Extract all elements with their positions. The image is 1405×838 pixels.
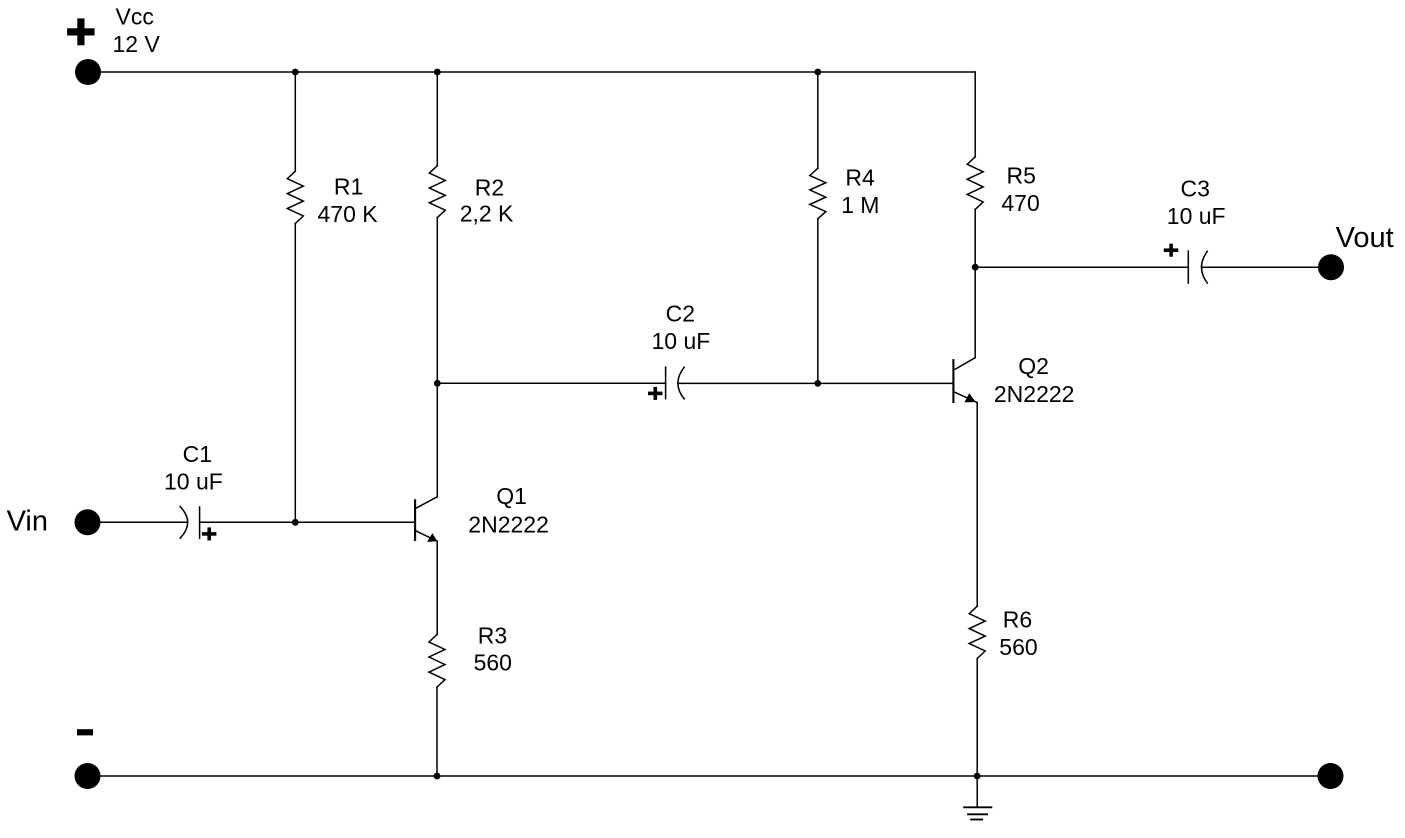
svg-text:12 V: 12 V: [113, 31, 161, 57]
terminal bottom-right: [1318, 763, 1344, 789]
svg-text:R2: R2: [475, 175, 504, 201]
capacitor C1 straight plate: [199, 507, 201, 538]
resistor R2: [429, 166, 445, 218]
wire C3 to Vout: [1202, 266, 1332, 268]
node R4 Q2 base: [814, 380, 821, 387]
ground: [963, 807, 992, 819]
wire R1 top stub: [294, 72, 296, 171]
resistor R5: [967, 157, 983, 210]
plus C2: [648, 387, 663, 400]
plus C3: [1164, 244, 1179, 257]
node top rail R4: [814, 69, 821, 76]
svg-text:10 uF: 10 uF: [1167, 203, 1226, 229]
svg-text:2N2222: 2N2222: [994, 381, 1075, 407]
svg-text:R1: R1: [334, 173, 363, 199]
node Q1 collector: [434, 380, 441, 387]
svg-text:560: 560: [999, 634, 1037, 660]
terminal Vin: [75, 509, 101, 535]
node R6 ground rail: [974, 773, 981, 780]
wire Q1 collector node to C2: [437, 382, 665, 384]
wire Q2 emitter down to R6: [976, 403, 978, 607]
resistor R3: [429, 635, 445, 688]
plus C1: [202, 527, 217, 540]
svg-text:C1: C1: [183, 441, 212, 467]
wire R3 bottom to ground rail: [436, 687, 438, 776]
wire R1 bottom to base node: [294, 224, 296, 523]
ground stub: [976, 776, 978, 807]
svg-text:C3: C3: [1181, 176, 1210, 202]
terminal bottom-left: [75, 763, 101, 789]
capacitor C2 straight plate: [665, 367, 667, 399]
wire Q1 emitter down to R3: [436, 541, 438, 634]
svg-text:10 uF: 10 uF: [164, 468, 223, 494]
svg-text:1 M: 1 M: [841, 192, 879, 218]
svg-text:R3: R3: [478, 623, 507, 649]
svg-text:Q1: Q1: [496, 483, 527, 509]
node R1 base: [292, 519, 299, 526]
wire C1 to Q1 base: [200, 521, 416, 523]
svg-text:C2: C2: [666, 301, 695, 327]
node top rail R1: [292, 69, 299, 76]
node R3 ground rail: [434, 773, 441, 780]
capacitor C3 curved plate: [1202, 251, 1208, 283]
wire R2 bottom to Q1 collector: [436, 218, 438, 497]
svg-text:Vout: Vout: [1336, 222, 1394, 254]
plus symbol Vcc: [67, 18, 95, 45]
wire R5 bottom to Q2 collector: [974, 209, 976, 357]
transistor Q2: [953, 358, 977, 403]
wire bottom rail: [88, 775, 1331, 777]
wire C2 to Q2 base: [678, 382, 954, 384]
node R5 C3: [972, 264, 979, 271]
svg-text:2N2222: 2N2222: [468, 511, 549, 537]
capacitor C2 curved plate: [678, 367, 684, 399]
terminal Vout: [1318, 254, 1344, 280]
wire R4 top stub: [817, 72, 819, 168]
svg-text:10 uF: 10 uF: [652, 328, 711, 354]
capacitor C3 straight plate: [1187, 251, 1189, 283]
svg-text:Vin: Vin: [7, 506, 48, 538]
wire top rail: [88, 71, 975, 73]
wire R5/C3 node to C3: [975, 266, 1188, 268]
resistor R4: [810, 168, 826, 219]
svg-text:470 K: 470 K: [318, 201, 379, 227]
minus symbol: [77, 729, 93, 735]
svg-text:R6: R6: [1003, 607, 1032, 633]
wire R2 top stub: [436, 72, 438, 166]
wire top rail corner down to R5: [974, 72, 976, 157]
wire R6 bottom to ground rail: [976, 659, 978, 777]
wire Vin to C1: [88, 521, 188, 523]
node top rail R2: [434, 69, 441, 76]
svg-text:Q2: Q2: [1018, 353, 1049, 379]
svg-text:R4: R4: [845, 165, 875, 191]
wire R4 bottom to Q2 base wire: [817, 219, 819, 384]
svg-text:560: 560: [474, 649, 512, 675]
svg-text:Vcc: Vcc: [116, 4, 154, 30]
svg-text:2,2 K: 2,2 K: [460, 200, 514, 226]
resistor R6: [969, 606, 985, 658]
capacitor C1 curved plate: [180, 507, 188, 539]
svg-text:470: 470: [1001, 190, 1039, 216]
resistor R1: [287, 171, 303, 223]
svg-text:R5: R5: [1007, 163, 1036, 189]
transistor Q1: [415, 497, 437, 542]
terminal Vcc: [75, 59, 101, 85]
